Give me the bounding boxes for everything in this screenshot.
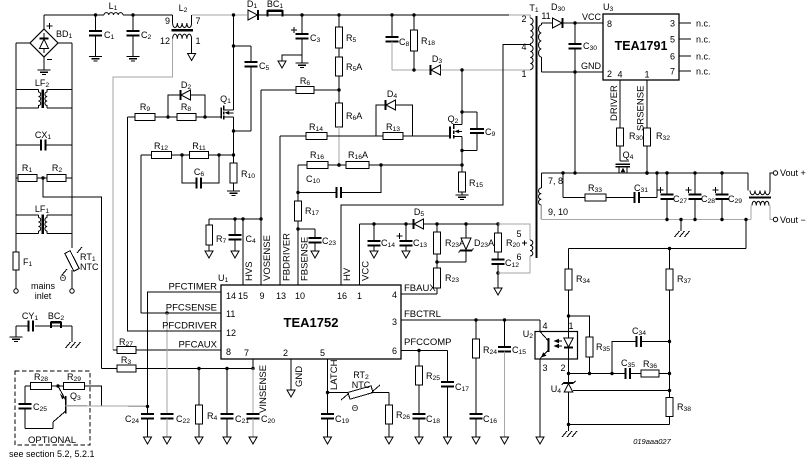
svg-text:7: 7 — [244, 348, 249, 358]
svg-text:1: 1 — [357, 291, 362, 301]
svg-text:Vout +: Vout + — [780, 168, 806, 178]
svg-text:11: 11 — [226, 309, 235, 319]
svg-text:n.c.: n.c. — [696, 52, 711, 62]
svg-text:VCC: VCC — [361, 261, 372, 281]
svg-text:3: 3 — [670, 19, 675, 29]
svg-text:019aaa027: 019aaa027 — [633, 437, 671, 446]
svg-text:NTC: NTC — [80, 262, 99, 272]
svg-text:7, 8: 7, 8 — [548, 176, 563, 186]
svg-text:VOSENSE: VOSENSE — [262, 235, 273, 281]
svg-text:7: 7 — [670, 67, 675, 77]
svg-text:OPTIONAL: OPTIONAL — [28, 435, 76, 446]
svg-text:6: 6 — [516, 252, 521, 262]
svg-text:9, 10: 9, 10 — [548, 207, 568, 217]
svg-text:GND: GND — [294, 366, 305, 387]
svg-text:NTC: NTC — [352, 380, 371, 390]
svg-text:VCC: VCC — [582, 12, 602, 22]
svg-text:10: 10 — [295, 291, 305, 301]
svg-text:5: 5 — [320, 348, 325, 358]
svg-text:9: 9 — [259, 291, 264, 301]
svg-text:FBAUX: FBAUX — [404, 283, 436, 294]
svg-text:PFCSENSE: PFCSENSE — [166, 303, 217, 314]
svg-text:6: 6 — [392, 346, 397, 356]
svg-text:15: 15 — [238, 291, 248, 301]
svg-text:1: 1 — [568, 321, 573, 331]
svg-text:1: 1 — [196, 36, 201, 46]
svg-text:PFCDRIVER: PFCDRIVER — [162, 321, 217, 332]
svg-text:n.c.: n.c. — [696, 67, 711, 77]
svg-text:3: 3 — [542, 363, 547, 373]
svg-text:see section 5.2, 5.2.1: see section 5.2, 5.2.1 — [9, 449, 95, 459]
svg-text:Θ: Θ — [60, 274, 66, 283]
svg-text:LATCH: LATCH — [329, 359, 340, 390]
svg-text:inlet: inlet — [35, 291, 52, 301]
svg-text:TEA1752: TEA1752 — [284, 315, 339, 330]
svg-text:TEA1791: TEA1791 — [615, 39, 668, 53]
svg-text:SRSENSE: SRSENSE — [636, 86, 647, 131]
svg-text:9: 9 — [165, 16, 170, 26]
svg-text:5: 5 — [516, 229, 521, 239]
svg-text:13: 13 — [276, 291, 286, 301]
svg-text:Θ: Θ — [352, 404, 358, 413]
svg-text:VINSENSE: VINSENSE — [258, 365, 269, 413]
svg-text:n.c.: n.c. — [696, 19, 711, 29]
svg-text:FBCTRL: FBCTRL — [404, 309, 441, 320]
svg-text:mains: mains — [31, 281, 56, 291]
svg-text:HVS: HVS — [244, 261, 255, 281]
svg-text:5: 5 — [670, 35, 675, 45]
svg-text:PFCAUX: PFCAUX — [178, 340, 217, 351]
svg-text:4: 4 — [542, 321, 547, 331]
svg-text:FBSENSE: FBSENSE — [300, 237, 311, 281]
svg-text:16: 16 — [337, 291, 347, 301]
svg-text:8: 8 — [607, 19, 612, 29]
svg-text:11: 11 — [541, 11, 550, 21]
svg-text:6: 6 — [670, 52, 675, 62]
svg-text:DRIVER: DRIVER — [609, 85, 620, 121]
svg-text:4: 4 — [617, 70, 622, 80]
svg-text:2: 2 — [607, 69, 612, 79]
svg-text:Vout −: Vout − — [780, 215, 806, 225]
svg-text:n.c.: n.c. — [696, 35, 711, 45]
svg-text:2: 2 — [283, 348, 288, 358]
svg-text:2: 2 — [560, 363, 565, 373]
svg-text:GND: GND — [581, 61, 602, 71]
svg-text:PFCTIMER: PFCTIMER — [168, 282, 217, 293]
svg-text:FBDRIVER: FBDRIVER — [282, 233, 293, 281]
svg-text:4: 4 — [392, 290, 397, 300]
svg-text:4: 4 — [521, 42, 526, 52]
svg-text:2: 2 — [521, 14, 526, 24]
svg-text:3: 3 — [392, 317, 397, 327]
svg-text:7: 7 — [196, 16, 201, 26]
svg-text:12: 12 — [226, 328, 236, 338]
svg-text:12: 12 — [160, 36, 170, 46]
svg-text:PFCCOMP: PFCCOMP — [404, 337, 452, 348]
svg-text:HV: HV — [342, 267, 353, 281]
svg-text:1: 1 — [521, 69, 526, 79]
svg-text:1: 1 — [644, 70, 649, 80]
svg-text:8: 8 — [226, 347, 231, 357]
svg-text:14: 14 — [226, 291, 236, 301]
